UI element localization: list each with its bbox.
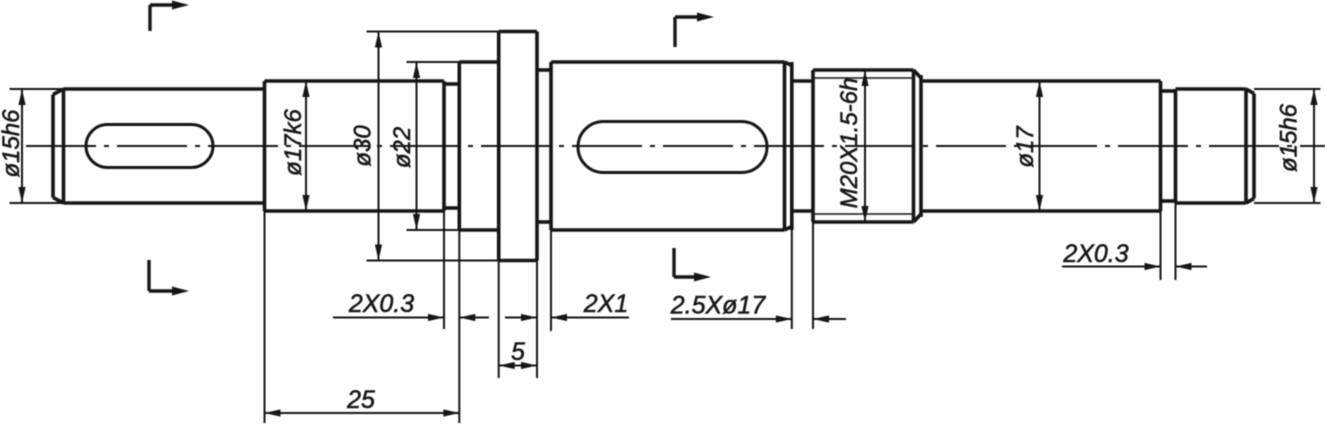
shaft section S8 M20 thread major (813, 70, 914, 222)
svg-text:ø30: ø30 (350, 125, 377, 167)
section mark bottom-left (149, 260, 189, 296)
thread minor diameter lines (813, 78, 914, 214)
shaft section S9 dia17 body (921, 81, 1161, 211)
shaft section S3 dia22 step body (459, 62, 498, 230)
shaft section S10 dia15h6 body (1176, 89, 1247, 203)
flange right face (535, 32, 539, 261)
relief groove G2 (2x1) (537, 70, 551, 222)
dimension D2 line dia17k6 (302, 81, 309, 211)
dimension D1 line dia15h6 (18, 89, 25, 203)
dimension D13 text 2X0.3 (1062, 240, 1128, 268)
svg-text:ø17k6: ø17k6 (280, 108, 307, 175)
svg-text:25: 25 (346, 386, 375, 414)
dimension D4 line dia22 (413, 62, 420, 230)
shaft section S1 dia15h6 body (64, 89, 265, 203)
dimension D3 ext lines (367, 32, 499, 261)
dimension D10 ext lines (792, 222, 813, 329)
shoulder face S1/S2 (263, 81, 267, 211)
dimension D8 text 2X0.3 (348, 290, 414, 318)
shaft section S6 dia22 body (551, 62, 785, 230)
section S8 right chamfer (914, 70, 922, 222)
shoulder face G2/S6 (549, 62, 553, 230)
svg-text:5: 5 (511, 338, 525, 366)
shoulder face S2/S3 (457, 62, 461, 230)
svg-text:2X0.3: 2X0.3 (348, 290, 414, 318)
flange left face (497, 32, 501, 261)
face G4/S10 (1174, 89, 1178, 203)
centerline (axis) (26, 145, 1325, 147)
dimension D11 ext lines (499, 261, 537, 379)
dimension D10 text 2.5Xdia17 (670, 292, 767, 320)
svg-text:ø22: ø22 (389, 127, 416, 168)
section mark bottom-middle (674, 248, 711, 282)
svg-text:M20X1.5-6h: M20X1.5-6h (836, 78, 863, 209)
dimension D7 text dia15h6 (1276, 103, 1303, 172)
dimension D5 text M20X1.5-6h (836, 78, 863, 209)
dimension D3 line dia30 (375, 32, 382, 261)
svg-text:ø15h6: ø15h6 (0, 109, 25, 178)
dimension D4 text dia22 (389, 127, 416, 168)
dimension D11 line 5 (499, 362, 537, 369)
section S6 right chamfer (785, 62, 792, 230)
dimension D4 ext lines (407, 62, 460, 230)
svg-text:ø17: ø17 (1012, 125, 1039, 168)
shoulder face S6 right / groove G3 wall (790, 62, 794, 230)
section S10 right end chamfer (1246, 89, 1254, 203)
section mark top-middle (675, 13, 714, 48)
dimension D5 line M20 (861, 70, 868, 222)
svg-text:2X0.3: 2X0.3 (1062, 240, 1128, 268)
section mark top-left (150, 1, 189, 32)
dimension D11 text 5 (511, 338, 525, 366)
dimension D8 line 2X0.3 (333, 314, 489, 321)
dimension D3 text dia30 (350, 125, 377, 167)
keyway slot K2 (578, 122, 767, 173)
dimension D9 text 2X1 (583, 290, 628, 318)
dimension D12 line 25 (265, 409, 460, 416)
svg-text:ø15h6: ø15h6 (1276, 103, 1303, 172)
dimension D1 text dia15h6 (0, 109, 25, 178)
shaft section S1 dia15h6 left end face (53, 89, 64, 203)
shoulder face S9 right / groove G4 wall (1159, 81, 1163, 211)
dimension D1 ext lines (10, 89, 65, 203)
dimension D10 line 2.5Xdia17 (671, 315, 846, 322)
relief groove G1 (2x0.3) (444, 81, 459, 211)
dimension D6 text dia17 (1012, 125, 1039, 168)
dimension D13 line 2X0.3 (1062, 263, 1207, 270)
shaft section S2 dia17k6 body (265, 81, 445, 211)
dimension D9 line 2X1 (505, 314, 629, 321)
keyway slot K1 (86, 125, 213, 168)
svg-text:2.5Xø17: 2.5Xø17 (670, 292, 767, 320)
dimension D12 text 25 (346, 386, 375, 414)
thread left face (811, 70, 815, 222)
dimension D7 line dia15h6 (1310, 89, 1317, 203)
shaft section S4 dia30 flange body (499, 32, 537, 261)
dimension D12 ext line (264, 211, 266, 423)
relief groove G4 (2x0.3) (1161, 91, 1176, 201)
thread end face (919, 75, 923, 217)
svg-text:2X1: 2X1 (583, 290, 628, 318)
dimension D13 ext lines (1161, 203, 1176, 280)
dimension D6 line dia17 (1036, 81, 1043, 211)
dimension D2 text dia17k6 (280, 108, 307, 175)
dimension D7 ext lines (1254, 89, 1321, 203)
dimension D9 ext lines (537, 230, 551, 331)
relief groove G3 (2.5xdia17) (792, 81, 813, 211)
dimension D8 ext lines (444, 211, 459, 423)
